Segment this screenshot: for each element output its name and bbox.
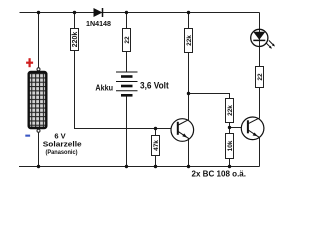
wire 22k top lead (188, 13, 190, 29)
node top 220k (73, 11, 76, 14)
wire Q2 emitter to bottom rail (259, 138, 261, 167)
node bottom battery (125, 165, 128, 168)
wire Q1 emitter down (188, 139, 190, 167)
transistor Q2 BC108 (241, 117, 264, 140)
wire collector node to R5 chain (189, 94, 230, 99)
diode D1 1N4148 (86, 8, 111, 28)
svg-text:10k: 10k (227, 140, 234, 151)
wire node B to Q2 base (230, 127, 242, 129)
svg-text:22k: 22k (186, 35, 193, 46)
node bottom 10k (228, 165, 231, 168)
svg-text:220k: 220k (72, 32, 79, 48)
wire top rail (20, 12, 260, 14)
node base 47k (154, 127, 157, 130)
solar cell body (29, 72, 47, 128)
minus terminal label (25, 135, 30, 137)
plus terminal label (26, 58, 33, 67)
svg-text:47k: 47k (153, 140, 160, 151)
wire bottom rail (19, 166, 260, 168)
svg-text:22: 22 (124, 36, 131, 44)
svg-text:22k: 22k (227, 105, 234, 116)
node top solar (37, 11, 40, 14)
svg-text:2x BC 108 o.ä.: 2x BC 108 o.ä. (192, 170, 247, 179)
svg-text:1N4148: 1N4148 (86, 21, 111, 28)
resistor R4 47k (152, 136, 160, 156)
wire R22b to Q2 collector (259, 88, 261, 119)
wire 22k2 to node B (229, 123, 231, 128)
svg-text:3,6 Volt: 3,6 Volt (140, 80, 169, 90)
wire 220k bottom lead to base (75, 51, 172, 129)
wire battery top lead (126, 13, 128, 29)
resistor R7 22 (256, 67, 264, 88)
resistor R1 220k (71, 29, 79, 51)
svg-text:Akku: Akku (95, 83, 113, 92)
node top battery (125, 11, 128, 14)
resistor R6 10k (226, 134, 234, 159)
node top 22k (187, 11, 190, 14)
battery B1 Akku 3.6V (116, 72, 138, 95)
svg-text:Solarzelle: Solarzelle (43, 139, 82, 148)
wire top rail corner through LED to R22b (259, 13, 261, 67)
node collector Q1 (187, 92, 190, 95)
wire solar branch top (38, 13, 40, 68)
wire 47k top lead (155, 129, 157, 136)
svg-text:22: 22 (257, 73, 264, 81)
transistor Q1 BC108 (171, 119, 194, 142)
node bottom Q1 emitter (187, 165, 190, 168)
solar cell terminal bottom (37, 129, 40, 132)
node bottom solar (37, 165, 40, 168)
resistor R3 22k (185, 29, 193, 53)
node B divider (228, 126, 231, 129)
solar cell terminal top (37, 68, 40, 71)
wire 22k to Q1 collector (188, 53, 190, 120)
resistor R5 22k (226, 99, 234, 123)
resistor R2 22 (123, 29, 131, 52)
wire battery to bottom rail (126, 96, 128, 167)
LED D2 (251, 29, 275, 48)
wire 47k bottom lead (155, 156, 157, 167)
wire 10k bottom lead (229, 159, 231, 167)
wire solar branch bottom (38, 132, 40, 167)
wire R22 to battery (126, 52, 128, 73)
wire 220k top lead (74, 13, 76, 29)
wire node B to 10k (229, 128, 231, 134)
svg-text:(Panasonic): (Panasonic) (46, 149, 78, 156)
node bottom 47k (154, 165, 157, 168)
